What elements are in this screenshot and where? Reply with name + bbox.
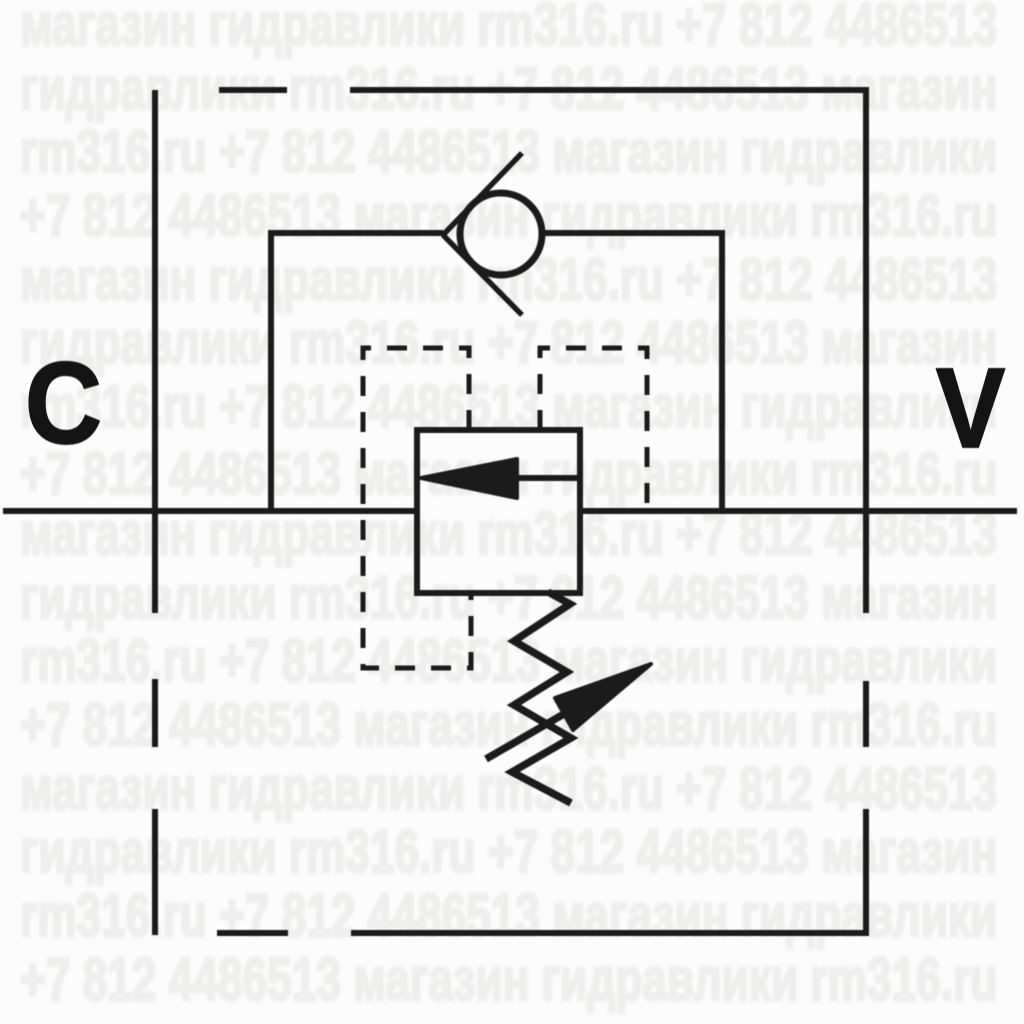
- pilot line to V port (dashed): [540, 348, 647, 511]
- port label C: [25, 345, 102, 461]
- check valve seat: [443, 153, 522, 315]
- check valve branch right wire: [540, 233, 722, 511]
- relief valve flow arrow: [421, 459, 517, 498]
- relief valve internal line: [517, 475, 577, 481]
- adjustment arrow head: [555, 664, 651, 730]
- check valve ball: [460, 193, 542, 275]
- valve envelope top edge: [219, 87, 869, 93]
- valve envelope right edge: [863, 90, 869, 936]
- main flow line V side: [577, 508, 1017, 514]
- check valve branch left wire: [271, 233, 443, 511]
- main flow line C side: [3, 508, 420, 514]
- port label V: [936, 352, 1005, 465]
- relief valve body U1: [417, 430, 580, 593]
- adjustment arrow shaft: [486, 696, 595, 759]
- spring: [512, 592, 571, 803]
- pilot line loop (dashed): [363, 348, 471, 668]
- valve envelope left edge: [152, 90, 158, 935]
- valve envelope bottom edge: [217, 930, 869, 936]
